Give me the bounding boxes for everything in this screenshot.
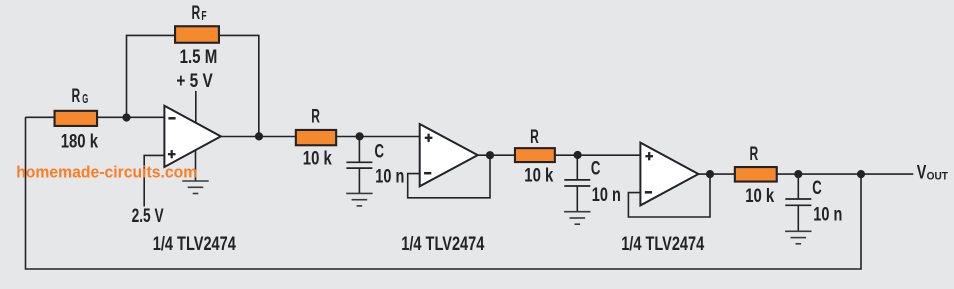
svg-text:2.5 V: 2.5 V [132, 206, 164, 227]
svg-text:R: R [530, 127, 539, 148]
svg-text:+ 5 V: + 5 V [176, 71, 213, 92]
svg-text:10 k: 10 k [303, 149, 332, 170]
svg-text:1/4 TLV2474: 1/4 TLV2474 [401, 234, 484, 255]
svg-text:R: R [311, 106, 320, 127]
svg-text:R: R [192, 3, 201, 24]
svg-text:1.5 M: 1.5 M [180, 47, 218, 68]
svg-text:1/4 TLV2474: 1/4 TLV2474 [621, 234, 704, 255]
svg-text:10 k: 10 k [745, 186, 774, 207]
svg-text:10 k: 10 k [524, 165, 553, 186]
svg-text:C: C [591, 159, 601, 180]
svg-text:V: V [917, 163, 927, 184]
svg-text:10 n: 10 n [592, 185, 621, 206]
svg-text:R: R [72, 86, 81, 107]
svg-text:F: F [201, 9, 206, 23]
svg-text:1/4 TLV2474: 1/4 TLV2474 [153, 234, 236, 255]
svg-text:OUT: OUT [927, 171, 949, 183]
svg-text:G: G [82, 92, 88, 106]
svg-text:homemade-circuits.com: homemade-circuits.com [16, 163, 197, 182]
svg-text:R: R [750, 144, 759, 165]
svg-text:180 k: 180 k [61, 131, 99, 152]
svg-text:C: C [375, 142, 385, 163]
svg-text:10 n: 10 n [375, 167, 404, 188]
svg-text:10 n: 10 n [813, 205, 842, 226]
svg-text:C: C [812, 178, 822, 199]
